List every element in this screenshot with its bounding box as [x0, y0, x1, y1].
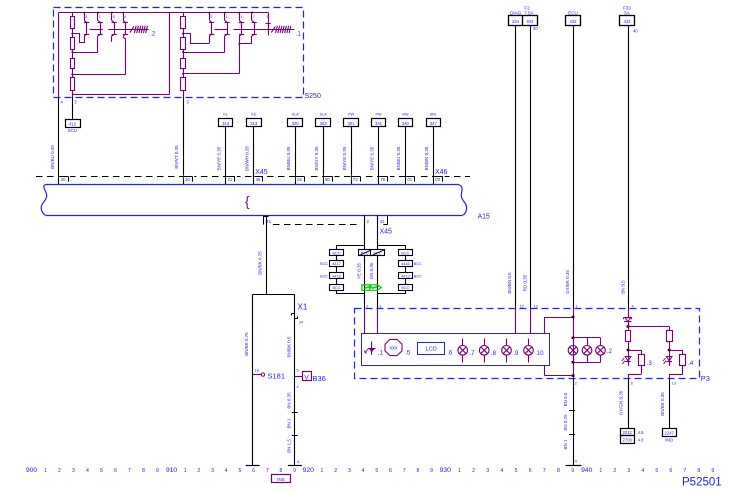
svg-text:3: 3	[211, 468, 214, 474]
svg-text:900: 900	[26, 467, 38, 474]
svg-text:1: 1	[599, 468, 602, 474]
svg-text:BN/YE 0.35: BN/YE 0.35	[369, 146, 374, 170]
svg-text:.1: .1	[378, 351, 384, 357]
svg-text:BCC: BCC	[320, 275, 328, 279]
svg-text:2: 2	[472, 468, 475, 474]
svg-text:LCD: LCD	[426, 347, 437, 353]
svg-text:.4: .4	[688, 361, 694, 367]
svg-text:5A: 5A	[624, 10, 630, 15]
svg-text:5: 5	[238, 468, 241, 474]
svg-text:BCC: BCC	[332, 252, 340, 256]
svg-text:5: 5	[375, 468, 378, 474]
svg-text:5: 5	[515, 468, 518, 474]
svg-text:8: 8	[697, 468, 700, 474]
svg-text:7.5A: 7.5A	[524, 10, 533, 15]
svg-text:4: 4	[86, 468, 89, 474]
svg-text:340: 340	[402, 121, 410, 126]
svg-text:412: 412	[69, 122, 77, 127]
svg-text:.10: .10	[535, 351, 544, 357]
svg-text:2247: 2247	[665, 430, 675, 435]
svg-text:9: 9	[293, 468, 296, 474]
svg-text:2: 2	[58, 468, 61, 474]
svg-text:BK 0.5: BK 0.5	[620, 280, 625, 294]
svg-text:433: 433	[570, 19, 578, 24]
svg-text:9: 9	[571, 468, 574, 474]
svg-text:B36: B36	[313, 374, 326, 383]
svg-text:.8: .8	[491, 351, 497, 357]
svg-text:5: 5	[655, 468, 658, 474]
svg-text:SRL: SRL	[430, 112, 437, 116]
svg-text:X45: X45	[380, 229, 393, 236]
svg-text:301: 301	[348, 121, 356, 126]
svg-text:2: 2	[575, 382, 577, 386]
svg-text:224: 224	[512, 19, 520, 24]
svg-text:2: 2	[197, 468, 200, 474]
svg-text:BCC: BCC	[414, 262, 422, 266]
svg-text:5: 5	[297, 369, 299, 373]
svg-text:43: 43	[380, 219, 385, 224]
svg-text:.2: .2	[150, 32, 156, 38]
svg-text:.7: .7	[470, 351, 476, 357]
svg-text:2703: 2703	[623, 438, 633, 443]
svg-text:PW: PW	[348, 112, 355, 116]
svg-text:73: 73	[353, 177, 358, 182]
svg-text:6: 6	[631, 382, 633, 386]
svg-text:9: 9	[711, 468, 714, 474]
svg-text:BN/YE 0.35: BN/YE 0.35	[342, 146, 347, 170]
svg-text:A15: A15	[478, 214, 491, 221]
svg-text:303: 303	[526, 19, 534, 24]
svg-text:5: 5	[113, 15, 115, 19]
svg-text:.6: .6	[447, 351, 453, 357]
svg-text:7: 7	[543, 468, 546, 474]
svg-text:24: 24	[299, 321, 303, 325]
svg-text:8: 8	[416, 468, 419, 474]
svg-text:BN/VT 0.35: BN/VT 0.35	[174, 145, 179, 169]
svg-text:GN 0.35: GN 0.35	[369, 262, 374, 279]
svg-text:343: 343	[320, 121, 328, 126]
svg-text:DIAG: DIAG	[510, 10, 522, 15]
svg-text:SLA: SLA	[292, 112, 300, 116]
svg-text:5: 5	[100, 468, 103, 474]
svg-text:BN/BN 0.35: BN/BN 0.35	[424, 146, 429, 170]
svg-text:1: 1	[458, 468, 461, 474]
svg-text:2: 2	[334, 468, 337, 474]
svg-text:910: 910	[166, 467, 178, 474]
svg-text:BCC: BCC	[401, 252, 409, 256]
svg-text:1: 1	[184, 468, 187, 474]
svg-text:3: 3	[379, 304, 381, 308]
svg-text:30: 30	[61, 177, 66, 182]
svg-text:INS: INS	[277, 477, 285, 482]
svg-text:7: 7	[128, 468, 131, 474]
svg-text:RW: RW	[402, 112, 409, 116]
svg-text:2: 2	[613, 468, 616, 474]
svg-text:BCC: BCC	[414, 275, 422, 279]
svg-text:X46: X46	[435, 169, 448, 176]
svg-text:46: 46	[256, 177, 261, 182]
svg-text:KL: KL	[223, 112, 228, 116]
svg-text:1: 1	[99, 15, 101, 19]
svg-text:4418: 4418	[332, 275, 340, 279]
svg-text:BCC: BCC	[361, 252, 369, 256]
svg-text:BCC: BCC	[332, 286, 340, 290]
svg-text:04: 04	[297, 177, 302, 182]
svg-text:{: {	[245, 194, 250, 209]
svg-text:SLA: SLA	[320, 112, 328, 116]
svg-text:2: 2	[85, 15, 87, 19]
svg-text:60: 60	[325, 177, 330, 182]
svg-text:.3: .3	[647, 361, 653, 367]
svg-text:.5: .5	[405, 351, 411, 357]
svg-text:X45: X45	[255, 169, 268, 176]
svg-text:8: 8	[142, 468, 145, 474]
svg-text:4: 4	[297, 385, 299, 389]
svg-text:BN 0.35: BN 0.35	[286, 392, 291, 409]
svg-text:.9: .9	[513, 351, 519, 357]
svg-text:7: 7	[403, 468, 406, 474]
svg-text:RD 0.35: RD 0.35	[522, 274, 527, 291]
svg-text:4: 4	[124, 15, 126, 19]
svg-text:GY/BK 0.35: GY/BK 0.35	[565, 270, 570, 294]
svg-text:6: 6	[669, 468, 672, 474]
svg-text:9: 9	[156, 468, 159, 474]
svg-text:BN/BK 0.75: BN/BK 0.75	[244, 332, 249, 356]
svg-text:1: 1	[226, 15, 228, 19]
svg-text:4.8: 4.8	[638, 430, 644, 435]
svg-text:3: 3	[486, 468, 489, 474]
svg-text:BN 0.75: BN 0.75	[563, 414, 568, 431]
svg-text:4: 4	[362, 468, 365, 474]
svg-text:BN/BU 0.35: BN/BU 0.35	[50, 145, 55, 169]
svg-text:30: 30	[185, 177, 190, 182]
svg-text:1: 1	[321, 468, 324, 474]
svg-text:ECU: ECU	[68, 128, 77, 133]
svg-text:30: 30	[533, 26, 538, 31]
svg-text:V: V	[304, 374, 309, 381]
svg-text:KE: KE	[251, 112, 257, 116]
svg-text:YE 0.35: YE 0.35	[356, 262, 361, 279]
svg-text:BN/BK 0.5: BN/BK 0.5	[286, 336, 291, 358]
svg-text:12: 12	[520, 304, 524, 308]
svg-text:BN 0.5: BN 0.5	[563, 392, 568, 406]
svg-text:BN 1.5: BN 1.5	[286, 439, 291, 453]
svg-text:341: 341	[375, 121, 383, 126]
svg-text:3: 3	[72, 468, 75, 474]
svg-text:01: 01	[407, 177, 412, 182]
svg-text:3: 3	[348, 468, 351, 474]
svg-text:3: 3	[627, 468, 630, 474]
svg-text:GY/GN 0.35: GY/GN 0.35	[619, 390, 624, 415]
svg-text:P3: P3	[701, 374, 710, 383]
svg-text:433: 433	[624, 19, 632, 24]
svg-text:41: 41	[266, 219, 271, 224]
svg-text:4416: 4416	[401, 262, 409, 266]
svg-text:.2: .2	[607, 349, 613, 355]
svg-text:1: 1	[240, 15, 242, 19]
svg-text:930: 930	[440, 467, 452, 474]
svg-text:8: 8	[279, 468, 282, 474]
svg-text:BN/YE 0.35: BN/YE 0.35	[216, 146, 221, 170]
svg-text:BCC: BCC	[320, 262, 328, 266]
svg-text:IMO: IMO	[665, 438, 674, 443]
svg-text:6: 6	[389, 468, 392, 474]
svg-text:6: 6	[114, 468, 117, 474]
svg-text:PW: PW	[375, 112, 382, 116]
svg-text:BCC: BCC	[401, 286, 409, 290]
svg-text:2012: 2012	[623, 430, 633, 435]
svg-text:13: 13	[672, 382, 676, 386]
svg-text:BN/BN 0.5: BN/BN 0.5	[507, 272, 512, 294]
svg-text:6: 6	[529, 468, 532, 474]
svg-text:4: 4	[225, 468, 228, 474]
svg-text:4413: 4413	[401, 275, 409, 279]
svg-text:920: 920	[303, 467, 315, 474]
svg-text:P52501: P52501	[682, 477, 722, 489]
svg-text:BN/BU 0.35: BN/BU 0.35	[286, 146, 291, 170]
svg-text:S181: S181	[268, 371, 286, 380]
svg-text:xxx: xxx	[389, 345, 398, 351]
svg-text:4: 4	[641, 468, 644, 474]
svg-text:BN 1: BN 1	[563, 439, 568, 450]
svg-text:4.8: 4.8	[638, 438, 644, 443]
svg-text:70: 70	[381, 177, 386, 182]
svg-text:.1: .1	[296, 32, 302, 38]
svg-text:2: 2	[210, 15, 212, 19]
svg-text:7: 7	[683, 468, 686, 474]
svg-text:BN 1: BN 1	[286, 418, 291, 429]
svg-text:BN/BK 0.75: BN/BK 0.75	[257, 251, 262, 275]
svg-text:X1: X1	[298, 303, 308, 312]
svg-text:BN/WH 0.35: BN/WH 0.35	[245, 146, 250, 172]
svg-text:ECU: ECU	[568, 10, 578, 15]
svg-text:BN/BK 0.35: BN/BK 0.35	[660, 392, 665, 416]
svg-text:4417: 4417	[332, 262, 340, 266]
svg-text:2: 2	[366, 304, 368, 308]
svg-text:347: 347	[430, 121, 438, 126]
svg-text:4: 4	[500, 468, 503, 474]
svg-text:8: 8	[557, 468, 560, 474]
svg-text:7: 7	[266, 468, 269, 474]
svg-text:13: 13	[534, 304, 538, 308]
svg-text:40: 40	[633, 28, 638, 33]
svg-text:BN/BU 0.35: BN/BU 0.35	[396, 146, 401, 170]
svg-text:BCC: BCC	[373, 252, 381, 256]
svg-text:21: 21	[228, 177, 233, 182]
svg-text:6: 6	[297, 460, 299, 464]
svg-text:S250: S250	[305, 93, 321, 100]
svg-text:4: 4	[632, 304, 634, 308]
svg-text:320: 320	[292, 121, 300, 126]
svg-text:BN/GY 0.35: BN/GY 0.35	[314, 146, 319, 170]
svg-text:1: 1	[44, 468, 47, 474]
svg-text:18: 18	[255, 369, 259, 373]
svg-text:7: 7	[253, 15, 255, 19]
svg-text:313: 313	[250, 121, 258, 126]
svg-text:4: 4	[575, 460, 577, 464]
svg-text:9: 9	[430, 468, 433, 474]
svg-text:1: 1	[576, 304, 578, 308]
svg-text:314: 314	[222, 121, 230, 126]
svg-text:03: 03	[435, 177, 440, 182]
svg-text:6: 6	[252, 468, 255, 474]
svg-text:940: 940	[581, 467, 593, 474]
